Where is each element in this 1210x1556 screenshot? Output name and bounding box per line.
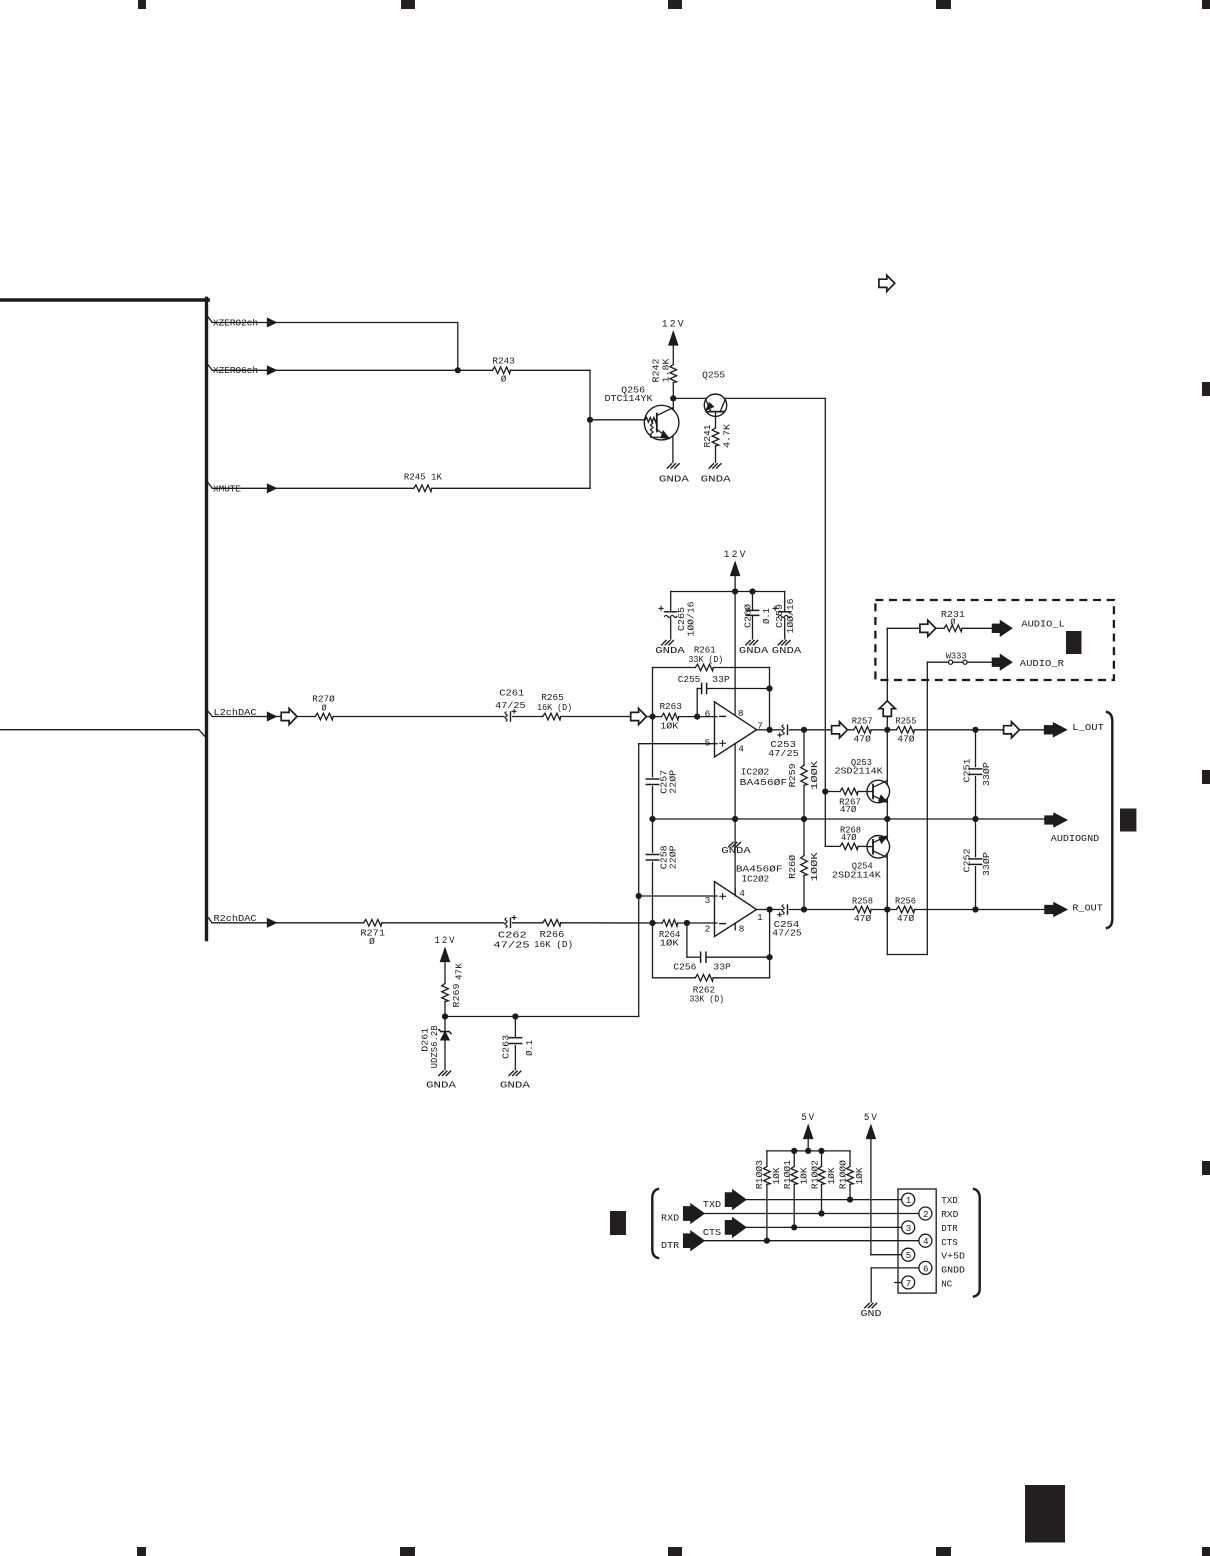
- wire out to C253: [770, 729, 782, 731]
- junction C252 bottom: [972, 906, 978, 912]
- svg-text:12V: 12V: [662, 320, 686, 331]
- large black rectangle bottom right: [1025, 1485, 1065, 1543]
- capacitor C265: [665, 611, 677, 613]
- resistor R1001: [791, 1166, 798, 1184]
- wire out2 to C254: [770, 909, 782, 911]
- wire Q256 collector: [672, 398, 674, 411]
- svg-text:47Ø: 47Ø: [854, 734, 872, 745]
- feedback wire R262: [653, 977, 696, 979]
- svg-text:33ØP: 33ØP: [981, 852, 992, 876]
- arrow L_OUT: [1045, 723, 1067, 736]
- wire C256 left leg: [686, 923, 688, 957]
- svg-text:NC: NC: [941, 1279, 952, 1290]
- svg-text:2: 2: [705, 924, 711, 935]
- registration mark top 4: [936, 0, 951, 9]
- resistor R243: [492, 367, 510, 374]
- bias vertical A: [638, 744, 640, 1017]
- svg-text:GNDA: GNDA: [739, 645, 769, 656]
- svg-text:GNDD: GNDD: [941, 1265, 965, 1276]
- junction Q256 collector node: [670, 395, 676, 401]
- junction AGND/C257: [649, 816, 655, 822]
- op-amp IC202a triangle: [715, 702, 757, 757]
- svg-text:47Ø: 47Ø: [854, 913, 872, 924]
- feedback wire R261 left: [653, 667, 696, 669]
- zener diode D261: [441, 1032, 449, 1040]
- svg-text:R26Ø: R26Ø: [787, 855, 798, 879]
- transistor Q255: [704, 394, 726, 416]
- node L2chDAC stub: [208, 711, 212, 717]
- resistor R231: [944, 625, 962, 632]
- svg-text:1ØK: 1ØK: [771, 1167, 782, 1184]
- svg-text:Ø.1: Ø.1: [761, 608, 772, 624]
- registration mark right 3: [1202, 1161, 1210, 1175]
- ground GNDA (op-amp): [729, 842, 733, 846]
- svg-text:4.7K: 4.7K: [721, 424, 732, 448]
- wire 12V to R269: [444, 961, 446, 984]
- flow arrow AUDIO_L: [920, 620, 936, 636]
- svg-text:4: 4: [738, 744, 744, 755]
- resistor R1001 lead: [793, 1151, 795, 1167]
- wire R267: [825, 791, 840, 793]
- connector pin 7: [902, 1276, 915, 1289]
- svg-text:1ØK: 1ØK: [660, 721, 678, 732]
- junction AGND/Q253: [884, 816, 890, 822]
- junction 12V/C260: [749, 588, 755, 594]
- wire C260 to ground: [752, 615, 754, 639]
- wire R1000 down: [849, 1184, 851, 1199]
- ground GNDA (C263): [509, 1071, 513, 1075]
- capacitor C258: [646, 854, 658, 856]
- svg-text:GNDA: GNDA: [659, 473, 689, 484]
- wire AUDIO_R vertical: [926, 662, 928, 954]
- diode D261 lead: [444, 1017, 446, 1032]
- wire R259 to AGND: [803, 785, 805, 819]
- registration mark bottom 1: [137, 1547, 146, 1556]
- svg-text:GNDA: GNDA: [772, 645, 802, 656]
- op-amp IC202b triangle: [715, 882, 757, 937]
- svg-text:16K (D): 16K (D): [537, 702, 572, 713]
- resistor R263: [662, 713, 679, 720]
- wire R271 to C262: [382, 922, 504, 924]
- resistor R261: [695, 664, 713, 671]
- connector pin 4: [919, 1234, 932, 1247]
- op-amp1 output wire: [757, 729, 770, 731]
- wire XZERO2ch: [212, 322, 267, 324]
- wire Q255 collector to right: [724, 397, 825, 399]
- svg-text:22ØP: 22ØP: [668, 769, 679, 793]
- svg-text:R259: R259: [787, 763, 798, 787]
- svg-text:33P: 33P: [713, 961, 731, 972]
- op-amp2 minus: [720, 923, 726, 925]
- arrow DTR: [684, 1231, 704, 1250]
- junction C256 tap: [684, 920, 690, 926]
- svg-text:Ø: Ø: [501, 374, 507, 385]
- flow arrow up (mute): [879, 701, 895, 717]
- node XZERO2ch stub: [208, 317, 212, 323]
- capacitor C253: [782, 725, 784, 734]
- capacitor C259 lead: [784, 592, 786, 612]
- wire C265 to ground: [670, 618, 672, 639]
- arrow L2chDAC: [268, 713, 277, 721]
- resistor R271: [364, 920, 382, 927]
- svg-text:R255: R255: [895, 716, 916, 727]
- wire input R down: [652, 923, 654, 978]
- wire L2chDAC segment: [276, 716, 281, 718]
- svg-text:BA456ØF: BA456ØF: [740, 777, 788, 788]
- wire R269 to node: [444, 1002, 446, 1017]
- arrow XZERO2ch: [268, 319, 277, 327]
- svg-text:1: 1: [906, 1195, 912, 1206]
- junction R259 node: [801, 727, 807, 733]
- wire C257 to AGND rail: [652, 787, 654, 819]
- junction L mute node: [884, 727, 890, 733]
- op-amp2 pin8 tick: [734, 923, 736, 930]
- wire R270 to C261: [333, 716, 504, 718]
- svg-text:GNDA: GNDA: [426, 1080, 456, 1091]
- junction input node L: [649, 714, 655, 720]
- svg-text:12V: 12V: [724, 550, 748, 561]
- arrow XZERO6ch: [268, 366, 277, 374]
- wire C255 left leg: [696, 689, 698, 717]
- svg-text:AUDIO_R: AUDIO_R: [1020, 658, 1065, 669]
- junction C256/R262: [767, 954, 773, 960]
- resistor R264: [662, 920, 678, 927]
- svg-text:1ØØ/16: 1ØØ/16: [685, 601, 696, 636]
- ground GNDA (C265): [662, 641, 666, 645]
- wire R256 to R_OUT: [914, 909, 1045, 911]
- svg-text:R1ØØ3: R1ØØ3: [754, 1160, 765, 1189]
- wire to Q256 base: [590, 419, 645, 421]
- svg-text:R1ØØØ: R1ØØØ: [838, 1160, 849, 1189]
- arrow AUDIOGND: [1045, 813, 1067, 826]
- capacitor C251: [969, 768, 981, 770]
- svg-text:3: 3: [906, 1223, 912, 1234]
- svg-text:1ØK: 1ØK: [854, 1167, 865, 1184]
- arrow XMUTE: [268, 484, 277, 492]
- svg-text:4: 4: [739, 888, 745, 899]
- wire CTS: [746, 1226, 902, 1228]
- wire R231 to arrow: [962, 627, 992, 629]
- svg-text:R_OUT: R_OUT: [1072, 902, 1103, 913]
- resistor R265: [543, 713, 561, 720]
- page link square near AUDIOGND: [1120, 809, 1136, 832]
- connector pin 5: [902, 1248, 915, 1261]
- wire C251 to AGND: [975, 777, 977, 819]
- svg-text:C251: C251: [962, 758, 973, 782]
- wire R268 to Q254: [858, 845, 868, 847]
- junction R1000/TXD: [847, 1197, 853, 1203]
- wire R1003 down: [766, 1184, 768, 1240]
- wire R255 to L_OUT: [914, 729, 1044, 731]
- junction 12V/pin8: [732, 588, 738, 594]
- wire AUDIO_L feed: [887, 627, 920, 629]
- wire XZERO2ch down: [457, 323, 459, 371]
- registration mark top 1: [138, 0, 146, 9]
- page flow arrow (top right): [879, 275, 895, 291]
- svg-text:1ØØK: 1ØØK: [809, 852, 820, 881]
- resistor R1003 lead: [766, 1151, 768, 1167]
- svg-text:R1ØØ1: R1ØØ1: [782, 1160, 793, 1189]
- wire R260 to node: [803, 876, 805, 910]
- capacitor C252 lead: [975, 819, 977, 857]
- registration mark bottom 3: [668, 1547, 682, 1556]
- wire pin8 supply: [734, 592, 736, 716]
- capacitor C260 lead: [752, 592, 754, 611]
- arrow AUDIO_L: [992, 621, 1011, 636]
- bias rail: [445, 1016, 639, 1018]
- resistor R1003: [764, 1166, 771, 1184]
- page link square near RXD: [610, 1211, 626, 1235]
- capacitor C260: [746, 609, 758, 611]
- wire XMUTE to R245: [276, 487, 414, 489]
- svg-text:AUDIO_L: AUDIO_L: [1021, 618, 1065, 629]
- registration mark bottom 4: [936, 1547, 951, 1556]
- svg-text:16K (D): 16K (D): [534, 939, 573, 950]
- svg-text:3: 3: [705, 895, 711, 906]
- svg-text:7: 7: [906, 1278, 912, 1289]
- junction XZERO6ch/XZERO2ch: [455, 367, 461, 373]
- svg-text:IC2Ø2: IC2Ø2: [742, 873, 770, 884]
- registration mark right 1: [1202, 382, 1210, 396]
- wire C258 top: [652, 819, 654, 852]
- svg-text:GNDA: GNDA: [655, 645, 685, 656]
- svg-text:R256: R256: [895, 895, 916, 906]
- wire C255 right: [707, 688, 770, 690]
- op-amp2 pin4 tick: [734, 889, 736, 896]
- wire R258-R256: [871, 909, 896, 911]
- wire R265 to arrow: [561, 716, 631, 718]
- resistor R260: [801, 856, 808, 876]
- svg-text:R1ØØ2: R1ØØ2: [809, 1160, 820, 1189]
- svg-text:Ø: Ø: [950, 617, 955, 628]
- capacitor C257: [646, 778, 658, 780]
- wire vertical x=590: [589, 370, 591, 488]
- connector pin 3: [902, 1221, 915, 1234]
- wire XMUTE: [212, 487, 267, 489]
- svg-text:22ØP: 22ØP: [668, 845, 679, 869]
- arrow AUDIO_R: [992, 655, 1011, 670]
- svg-text:1ØK: 1ØK: [660, 937, 679, 948]
- svg-text:RXD: RXD: [941, 1209, 958, 1220]
- flow arrow L_OUT: [1004, 722, 1020, 738]
- svg-text:47K: 47K: [454, 963, 465, 980]
- junction C251 top: [972, 727, 978, 733]
- ground GNDA (C260): [746, 641, 750, 645]
- jumper W333: [949, 660, 953, 664]
- arrow RXD: [684, 1204, 704, 1223]
- wire XZERO6ch to R243: [276, 369, 492, 371]
- wire R2chDAC to R271: [276, 922, 364, 924]
- wire 12V to R242: [672, 344, 674, 365]
- svg-text:2SD2114K: 2SD2114K: [835, 766, 884, 777]
- svg-text:6: 6: [705, 709, 711, 720]
- wire C258 to R input: [652, 862, 654, 923]
- AUDIOGND rail: [653, 818, 1045, 820]
- junction R267 tap: [822, 788, 828, 794]
- feedback wire R261 right: [713, 667, 769, 669]
- supply rail 12V: [671, 591, 785, 593]
- R_OUT rail left: [804, 909, 854, 911]
- feedback vertical right: [769, 668, 771, 730]
- capacitor C254: [782, 905, 784, 914]
- junction AGND/pin4: [732, 816, 738, 822]
- wire C256 right: [706, 956, 770, 958]
- transistor Q254: [867, 836, 890, 859]
- wire C263 to ground: [514, 1046, 516, 1070]
- op-amp1 pin5 wire: [639, 743, 717, 745]
- dashed option box: [875, 600, 1114, 680]
- node XZERO6ch stub: [208, 365, 212, 371]
- wire DTR: [704, 1240, 919, 1242]
- wire to R231: [936, 627, 944, 629]
- capacitor C261: [505, 712, 507, 721]
- wire R266 to node: [561, 922, 662, 924]
- wire W333 to arrow: [967, 661, 992, 663]
- wire R242 to junction: [672, 383, 674, 399]
- junction R mute node: [884, 906, 890, 912]
- registration mark top 2: [401, 0, 415, 9]
- op-amp1 minus: [720, 715, 726, 717]
- wire C259 to ground: [784, 618, 786, 639]
- ground GND (serial): [865, 1303, 869, 1307]
- serial bracket left: [652, 1189, 658, 1258]
- wire R1001 down: [793, 1184, 795, 1227]
- resistor R266: [543, 920, 561, 927]
- wire mute U bottom: [887, 954, 927, 956]
- svg-text:R258: R258: [852, 895, 873, 906]
- junction R1001/CTS: [791, 1224, 797, 1230]
- resistor R262: [695, 975, 713, 982]
- registration mark top 5: [1202, 0, 1210, 9]
- junction R1002/RXD: [818, 1210, 824, 1216]
- wire R267 to Q253: [858, 791, 868, 793]
- svg-text:5V: 5V: [801, 1113, 816, 1124]
- svg-text:CTS: CTS: [941, 1237, 958, 1248]
- svg-text:1ØK: 1ØK: [799, 1167, 810, 1184]
- wire pin4 chain low: [734, 819, 736, 896]
- svg-text:8: 8: [738, 708, 744, 719]
- wire XZERO2ch to corner: [276, 322, 458, 324]
- junction Q256 base node: [587, 417, 593, 423]
- op-amp2 pin3 wire: [639, 895, 717, 897]
- svg-text:TXD: TXD: [941, 1195, 958, 1206]
- svg-text:C261: C261: [499, 687, 524, 698]
- resistor R260 lead: [803, 819, 805, 856]
- resistor R259: [801, 765, 808, 785]
- svg-text:1ØK: 1ØK: [826, 1167, 837, 1184]
- capacitor C263 lead: [514, 1017, 516, 1037]
- svg-text:V+5D: V+5D: [941, 1251, 965, 1262]
- connector pin7 stub: [895, 1282, 902, 1284]
- svg-text:Ø: Ø: [322, 703, 327, 714]
- wire XZERO6ch: [212, 369, 267, 371]
- flow arrow L rail: [832, 722, 848, 738]
- svg-text:47/25: 47/25: [768, 748, 799, 759]
- wire V+5D to pin5: [871, 1254, 902, 1256]
- svg-text:12V: 12V: [435, 936, 457, 947]
- wire R243 to corner: [510, 369, 590, 371]
- svg-text:5V: 5V: [864, 1113, 879, 1124]
- junction R1003/DTR: [764, 1238, 770, 1244]
- junction C255 tap: [694, 714, 700, 720]
- svg-text:C263: C263: [501, 1035, 512, 1059]
- resistor R258: [854, 906, 872, 913]
- svg-text:5: 5: [906, 1250, 912, 1261]
- svg-text:2: 2: [923, 1209, 929, 1220]
- bias vertical B C257 chain top: [652, 717, 654, 777]
- wire R1002 down: [821, 1184, 823, 1213]
- wire RXD: [704, 1213, 919, 1215]
- svg-text:33K (D): 33K (D): [689, 994, 724, 1005]
- resistor R1000 lead: [849, 1151, 851, 1167]
- svg-text:Ø: Ø: [369, 936, 375, 947]
- svg-text:R257: R257: [852, 716, 873, 727]
- junction C255/R261 node: [766, 685, 772, 691]
- svg-text:33K (D): 33K (D): [689, 654, 724, 665]
- svg-text:Q255: Q255: [702, 369, 725, 380]
- capacitor C251 lead: [975, 730, 977, 767]
- capacitor C256: [700, 952, 702, 962]
- wire junction to Q255: [673, 397, 706, 399]
- resistor R1002: [818, 1166, 825, 1184]
- svg-text:AUDIOGND: AUDIOGND: [1051, 833, 1100, 844]
- op-amp2 output wire: [757, 909, 770, 911]
- registration mark top 3: [668, 0, 682, 9]
- wire C254 to node: [790, 909, 804, 911]
- resistor R269: [442, 984, 449, 1002]
- capacitor C259: [779, 611, 791, 613]
- svg-text:1: 1: [757, 912, 763, 923]
- wire C253 to node: [790, 729, 804, 731]
- svg-text:47Ø: 47Ø: [841, 832, 857, 843]
- wire C262 to R266: [513, 922, 543, 924]
- IC block edge (top): [0, 298, 208, 301]
- IC block edge (right): [205, 298, 208, 939]
- svg-text:C255: C255: [678, 674, 701, 685]
- resistor R255: [896, 727, 914, 734]
- registration mark bottom 5: [1202, 1547, 1210, 1556]
- svg-text:2SD2114K: 2SD2114K: [832, 869, 881, 880]
- wire R263 to pin6: [679, 716, 717, 718]
- pull-up rail: [767, 1150, 850, 1152]
- connector pin 6: [919, 1261, 932, 1274]
- arrow CTS: [725, 1218, 745, 1237]
- svg-text:47Ø: 47Ø: [897, 734, 915, 745]
- svg-text:Ø.1: Ø.1: [524, 1040, 535, 1056]
- svg-text:47/25: 47/25: [493, 940, 530, 951]
- ground GNDA (R241): [709, 464, 713, 468]
- svg-text:47Ø: 47Ø: [897, 913, 915, 924]
- svg-text:R263: R263: [659, 701, 682, 712]
- wire to W333: [927, 661, 948, 663]
- ground GNDA (C259): [778, 641, 782, 645]
- node XMUTE stub: [208, 483, 212, 489]
- svg-text:33ØP: 33ØP: [981, 762, 992, 786]
- svg-text:R241: R241: [702, 424, 713, 447]
- svg-text:R243: R243: [492, 356, 515, 367]
- junction AGND/R259: [801, 816, 807, 822]
- resistor R256: [896, 906, 914, 913]
- svg-text:8: 8: [739, 924, 745, 935]
- wire R257-R255: [871, 729, 896, 731]
- arrow TXD: [725, 1190, 745, 1209]
- resistor R270: [315, 713, 333, 720]
- output bracket: [1107, 712, 1112, 928]
- flow arrow L2chDAC: [281, 708, 297, 724]
- wire TXD: [746, 1199, 902, 1201]
- svg-text:DTR: DTR: [661, 1240, 680, 1251]
- wire R241 to ground: [715, 446, 717, 462]
